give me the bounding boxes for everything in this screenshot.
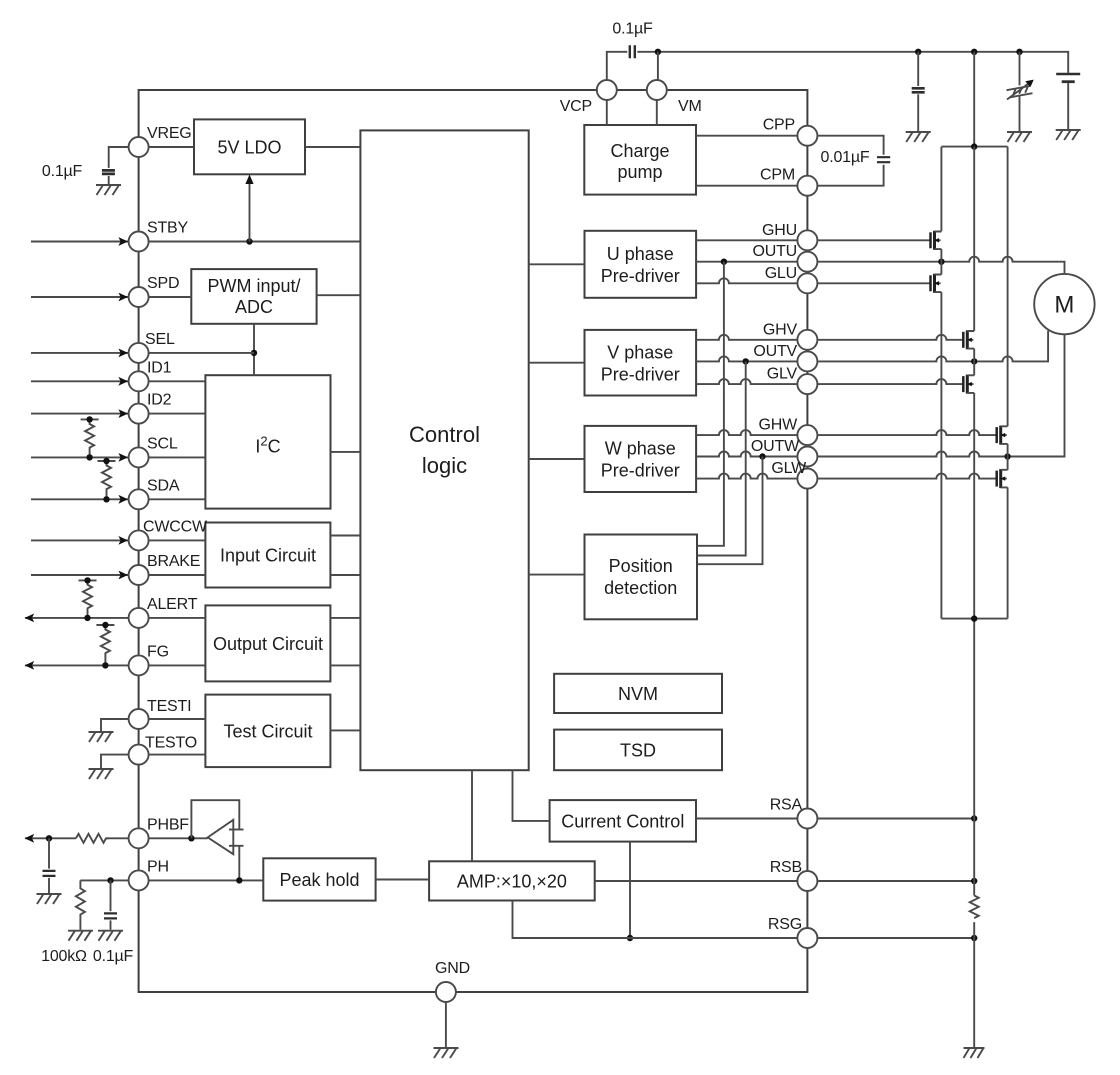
ground at PHBF cap: [37, 894, 62, 904]
wire SCL input: [31, 456, 205, 458]
wire Charge pump to CPP: [696, 135, 807, 137]
node ALERT resistor bottom: [84, 615, 90, 621]
wire SEL input: [31, 352, 254, 354]
node FG resistor bottom: [102, 662, 108, 668]
wire TESTO ground stub: [101, 755, 129, 768]
ground at VREG cap: [96, 185, 121, 195]
wire U drain bus: [940, 147, 942, 232]
svg-text:GLU: GLU: [765, 265, 797, 282]
wire VCP to Charge pump: [606, 100, 608, 125]
ground top right 2: [1007, 132, 1032, 142]
transistor V high-side FET: [962, 332, 965, 348]
ground top right 1: [906, 132, 931, 142]
node OUTV half-bridge: [971, 358, 977, 364]
pin BRAKE: [129, 565, 149, 585]
node SDA resistor top: [103, 458, 109, 464]
svg-text:0.1µF: 0.1µF: [42, 163, 83, 180]
arrow SCL: [118, 453, 128, 462]
wire CWCCW input: [31, 539, 205, 541]
wire V bridge mid: [973, 349, 975, 376]
wire PHBF to amp: [149, 837, 208, 839]
wire PH cap branch down: [110, 880, 112, 911]
wire Control logic to V Pre-driver: [529, 362, 585, 364]
svg-text:Charge: Charge: [610, 141, 669, 161]
pin PH: [129, 870, 149, 890]
block TSD: [554, 730, 722, 771]
wire GHU gate line: [696, 239, 930, 241]
node VM top: [655, 49, 661, 55]
wire sense to ground: [973, 922, 975, 1047]
resistor pull-up ALERT: [79, 580, 97, 618]
wire electrolytic to ground: [1019, 96, 1021, 131]
arrow ID1: [118, 377, 128, 386]
svg-text:pump: pump: [617, 162, 662, 182]
pin GLW: [797, 469, 817, 489]
svg-text:TESTI: TESTI: [147, 698, 191, 715]
wire electrolytic branch: [1019, 52, 1021, 86]
svg-text:I2C: I2C: [255, 434, 280, 457]
transistor W high-side FET: [995, 427, 998, 443]
svg-text:Pre-driver: Pre-driver: [601, 266, 680, 286]
wire W bridge mid: [1007, 444, 1009, 470]
node RSA junction: [971, 815, 977, 821]
pin SDA: [129, 489, 149, 509]
wire GND pin to ground: [445, 1002, 447, 1047]
node RSG junction: [971, 935, 977, 941]
svg-text:5V LDO: 5V LDO: [217, 138, 281, 158]
wire GLW gate line: [696, 474, 997, 479]
svg-text:Current Control: Current Control: [561, 811, 684, 831]
block Position detection: [585, 535, 698, 620]
node SCL resistor bottom: [86, 454, 92, 460]
pin CPM: [797, 176, 817, 196]
pin CPP: [797, 126, 817, 146]
wire GLV gate line: [696, 379, 963, 384]
node FG resistor top: [102, 622, 108, 628]
pin SEL: [129, 343, 149, 363]
wire VREG to 5V LDO: [149, 146, 194, 148]
pin GND: [436, 982, 456, 1002]
wire 5V LDO to Control logic: [305, 146, 360, 148]
wire PHBF output left: [25, 837, 76, 839]
wire VCP up to top rail: [607, 52, 628, 80]
wire SPD input: [31, 296, 191, 298]
wire PH cap to ground: [110, 920, 112, 929]
svg-text:ID2: ID2: [147, 392, 172, 409]
arrow STBY: [118, 237, 128, 246]
wire cap to ground: [108, 176, 110, 185]
wire VREG external stub: [109, 147, 129, 168]
wire PWM/ADC to Control logic: [317, 294, 361, 296]
block Peak hold: [263, 858, 375, 900]
node amp output: [188, 835, 194, 841]
node OUTV position branch: [743, 358, 749, 364]
wire bottom bus bar: [941, 618, 1007, 620]
arrowhead into 5V LDO: [245, 175, 253, 185]
wire Control logic to AMP: [471, 770, 473, 861]
transistor U high-side FET: [929, 232, 932, 248]
pin PHBF: [129, 828, 149, 848]
svg-text:Pre-driver: Pre-driver: [601, 365, 680, 385]
pin SCL: [129, 447, 149, 467]
svg-text:VM: VM: [678, 98, 702, 115]
svg-text:RSB: RSB: [770, 859, 802, 876]
wire V drain bus: [973, 147, 975, 331]
block U phase Pre-driver: [585, 231, 697, 298]
svg-text:SPD: SPD: [147, 275, 179, 292]
node bottom bus: [971, 615, 977, 621]
svg-text:GLW: GLW: [771, 460, 807, 477]
pin GLU: [797, 273, 817, 293]
block Current Control: [550, 800, 696, 842]
svg-text:W phase: W phase: [605, 439, 676, 459]
wire resistor to PHBF pin: [106, 837, 129, 839]
pin ALERT: [129, 608, 149, 628]
wire external cap to CPM: [817, 165, 883, 186]
arrow FG: [25, 661, 35, 670]
block W phase Pre-driver: [585, 426, 697, 492]
pin VCP: [597, 80, 617, 100]
node ALERT resistor top: [84, 577, 90, 583]
svg-text:AMP:×10,×20: AMP:×10,×20: [457, 871, 567, 891]
wire Output Circuit to Control logic 1: [330, 617, 360, 619]
pin RSG: [797, 928, 817, 948]
pin TESTI: [129, 709, 149, 729]
wire cap branch at 918: [917, 52, 919, 86]
svg-text:SCL: SCL: [147, 435, 178, 452]
arrow SPD: [118, 293, 128, 302]
node VM bus bar: [971, 143, 977, 149]
wire Control logic to U Pre-driver: [529, 263, 585, 265]
svg-text:OUTW: OUTW: [751, 438, 800, 455]
node OUTU half-bridge: [938, 259, 944, 265]
wire U bridge mid: [940, 249, 942, 274]
capacitor 0.1uF at PH: [104, 913, 117, 918]
pin GLV: [797, 374, 817, 394]
wire Peak hold to AMP: [376, 879, 430, 881]
svg-text:FG: FG: [147, 643, 169, 660]
wire ALERT output: [25, 617, 205, 619]
svg-text:BRAKE: BRAKE: [147, 553, 200, 570]
pin OUTU: [797, 252, 817, 272]
svg-text:U phase: U phase: [607, 244, 674, 264]
wire Charge pump to CPM: [696, 185, 807, 187]
node OUTW half-bridge: [1004, 453, 1010, 459]
pin OUTV: [797, 351, 817, 371]
block Input Circuit: [205, 523, 330, 588]
ground bottom right: [964, 1048, 985, 1058]
block PWM input/ADC: [191, 269, 316, 324]
arrow CWCCW: [118, 536, 128, 545]
node electrolytic branch: [1016, 49, 1022, 55]
pin VM: [647, 80, 667, 100]
svg-text:logic: logic: [422, 453, 467, 478]
pin VREG: [129, 137, 149, 157]
block Control logic: [360, 130, 528, 770]
ground at 100k: [68, 931, 93, 941]
pin RSB: [797, 871, 817, 891]
wire CPP to external cap: [817, 136, 883, 155]
block AMP: [429, 861, 595, 900]
wire Control logic to Current Control: [513, 770, 550, 821]
wire OUTW to Position detection: [697, 457, 763, 565]
resistor pull-up FG: [96, 625, 114, 665]
wire I2C to Control logic: [331, 451, 361, 453]
wire V bridge lower: [973, 393, 975, 896]
svg-text:RSA: RSA: [770, 797, 803, 814]
pin CWCCW: [129, 530, 149, 550]
svg-text:100kΩ: 100kΩ: [41, 948, 87, 965]
wire cap branch down: [48, 838, 50, 868]
svg-text:detection: detection: [604, 578, 677, 598]
wire Current Control to RSA: [696, 818, 974, 820]
wire TESTO to Test Circuit: [149, 754, 206, 756]
pin ID2: [129, 404, 149, 424]
pin GHV: [797, 330, 817, 350]
arrow ALERT: [25, 614, 35, 623]
node VM bus branch: [971, 49, 977, 55]
wire VM bus top bar: [941, 146, 1007, 148]
node Current Control RSG junction: [627, 935, 633, 941]
wire STBY to 5V LDO: [249, 182, 251, 242]
wire cap to ground: [48, 878, 50, 893]
wire TESTI ground stub: [101, 719, 129, 731]
pin GHW: [797, 425, 817, 445]
wire FG output: [25, 664, 205, 666]
resistor pull-up SDA: [98, 461, 116, 499]
arrow SEL: [118, 349, 128, 358]
svg-text:ADC: ADC: [235, 297, 273, 317]
node SCL resistor top: [86, 416, 92, 422]
node STBY branch: [246, 238, 252, 244]
svg-text:Input Circuit: Input Circuit: [220, 546, 316, 566]
resistor 100k at PH: [76, 880, 85, 929]
transistor V low-side FET: [962, 376, 965, 392]
node PH amp branch: [236, 877, 242, 883]
capacitor 0.1uF at VREG: [102, 170, 115, 174]
svg-text:OUTU: OUTU: [752, 243, 797, 260]
wire STBY input and to Control logic: [31, 241, 360, 243]
svg-text:Output Circuit: Output Circuit: [213, 634, 323, 654]
pin RSA: [797, 809, 817, 829]
block Charge pump: [584, 125, 696, 195]
op-amp buffer: [208, 820, 234, 854]
svg-text:Test Circuit: Test Circuit: [223, 721, 312, 741]
wire Output Circuit to Control logic 2: [330, 664, 360, 666]
arrow PHBF: [25, 834, 35, 843]
svg-text:TSD: TSD: [620, 740, 656, 760]
wire GLU gate line: [696, 278, 930, 283]
svg-text:Pre-driver: Pre-driver: [601, 461, 680, 481]
wire OUTU line to motor: [696, 257, 1064, 274]
pin ID1: [129, 371, 149, 391]
svg-text:M: M: [1054, 292, 1074, 319]
capacitor reservoir top right: [1056, 73, 1080, 75]
ground at TESTI: [89, 732, 114, 742]
node OUTU position branch: [721, 259, 727, 265]
ground at GND pin: [434, 1048, 459, 1058]
svg-text:RSG: RSG: [768, 916, 802, 933]
IC boundary: [139, 90, 808, 992]
wire ID1 input: [31, 380, 205, 382]
wire cap to ground: [917, 94, 919, 131]
wire top rail: [637, 52, 1068, 73]
wire OUTV line to motor: [696, 331, 1048, 362]
wire VM bus down: [973, 52, 975, 147]
wire Current Control to RSG line: [629, 842, 631, 938]
svg-text:GHV: GHV: [763, 321, 798, 338]
svg-text:PWM input/: PWM input/: [207, 276, 300, 296]
svg-text:Control: Control: [409, 422, 480, 447]
resistor sense RS: [970, 896, 979, 919]
svg-text:Position: Position: [609, 556, 673, 576]
svg-text:ID1: ID1: [147, 359, 172, 376]
block NVM: [554, 674, 722, 713]
svg-text:SEL: SEL: [145, 331, 175, 348]
ground at PH cap: [98, 931, 123, 941]
wire W drain bus: [1007, 147, 1009, 427]
wire GHV gate line: [696, 335, 963, 340]
arrow ID2: [118, 409, 128, 418]
wire Test Circuit to Control logic: [330, 729, 360, 731]
pin OUTW: [797, 447, 817, 467]
pin STBY: [129, 232, 149, 252]
ground at TESTO: [89, 769, 114, 779]
wire amp feedback loop: [191, 800, 239, 838]
svg-text:GND: GND: [435, 960, 470, 977]
capacitor 0.1uF series top: [630, 45, 635, 58]
wire OUTV to Position detection: [697, 361, 746, 555]
node top rail cap branch: [915, 49, 921, 55]
wire Control logic to Position detection: [529, 574, 585, 576]
svg-text:GLV: GLV: [767, 366, 798, 383]
svg-text:0.1µF: 0.1µF: [612, 21, 653, 38]
arrow electrolytic polarity: [1007, 84, 1029, 100]
node SEL junction: [251, 350, 257, 356]
svg-text:Peak hold: Peak hold: [279, 870, 359, 890]
svg-text:SDA: SDA: [147, 477, 180, 494]
pin SPD: [129, 287, 149, 307]
wire ID2 input: [31, 413, 205, 415]
svg-text:GHU: GHU: [762, 222, 797, 239]
node SDA resistor bottom: [103, 496, 109, 502]
motor M: [1034, 274, 1094, 334]
node PH cap branch: [107, 877, 113, 883]
wire Control logic to W Pre-driver: [529, 458, 585, 460]
wire amp input to PH line: [238, 846, 240, 881]
wire Input Circuit to Control logic 1: [330, 535, 360, 537]
svg-text:PH: PH: [147, 858, 169, 875]
svg-text:GHW: GHW: [758, 417, 798, 434]
capacitor bypass top right: [912, 88, 925, 92]
svg-text:PHBF: PHBF: [147, 816, 189, 833]
wire VM to Charge pump: [656, 100, 658, 125]
block V phase Pre-driver: [585, 330, 697, 396]
svg-text:OUTV: OUTV: [753, 343, 797, 360]
block 5V LDO: [194, 119, 305, 174]
pin GHU: [797, 230, 817, 250]
svg-text:VCP: VCP: [560, 98, 592, 115]
resistor pull-up SCL: [81, 419, 99, 457]
wire U bridge lower: [940, 292, 942, 618]
wire TESTI to Test Circuit: [149, 718, 206, 720]
wire reservoir cap to ground: [1067, 83, 1069, 129]
svg-text:0.1µF: 0.1µF: [93, 948, 134, 965]
svg-text:TESTO: TESTO: [145, 735, 197, 752]
block Test Circuit: [205, 695, 330, 768]
node RSB junction: [971, 878, 977, 884]
wire SDA input: [31, 498, 205, 500]
wire amp input stub top: [229, 829, 244, 831]
arrow BRAKE: [118, 571, 128, 580]
pin FG: [129, 655, 149, 675]
block Output Circuit: [205, 605, 330, 681]
ground top right 3: [1056, 130, 1081, 140]
wire OUTW line to motor: [696, 334, 1064, 456]
block I2C: [205, 375, 330, 508]
capacitor at PHBF: [43, 871, 56, 876]
wire BRAKE input: [31, 574, 205, 576]
wire PWM/ADC to I2C: [253, 324, 255, 375]
pin TESTO: [129, 745, 149, 765]
svg-text:CPP: CPP: [763, 117, 795, 134]
wire Input Circuit to Control logic 2: [330, 574, 360, 576]
arrow SDA: [118, 495, 128, 504]
wire AMP to RSB: [595, 880, 975, 882]
wire W bridge lower: [1007, 487, 1009, 618]
wire PH to Peak hold: [149, 879, 264, 881]
svg-text:VREG: VREG: [147, 125, 192, 142]
svg-text:ALERT: ALERT: [147, 596, 198, 613]
wire amp input stub bottom: [229, 845, 244, 847]
capacitor electrolytic: [1007, 86, 1033, 97]
capacitor 0.01uF: [877, 157, 890, 162]
node PHBF cap branch: [46, 835, 52, 841]
svg-text:NVM: NVM: [618, 684, 658, 704]
svg-text:CPM: CPM: [760, 167, 795, 184]
wire VM branch: [657, 52, 659, 80]
node OUTW position branch: [759, 453, 765, 459]
wire AMP to RSG: [513, 901, 975, 939]
wire PH external: [80, 879, 128, 881]
transistor W low-side FET: [995, 471, 998, 487]
resistor at PHBF: [76, 834, 109, 843]
svg-text:STBY: STBY: [147, 220, 189, 237]
transistor U low-side FET: [929, 275, 932, 291]
wire GHW gate line: [696, 430, 997, 435]
svg-text:V phase: V phase: [607, 343, 673, 363]
svg-text:CWCCW: CWCCW: [143, 518, 208, 535]
svg-text:0.01µF: 0.01µF: [821, 149, 870, 166]
wire OUTU to Position detection: [697, 262, 724, 546]
